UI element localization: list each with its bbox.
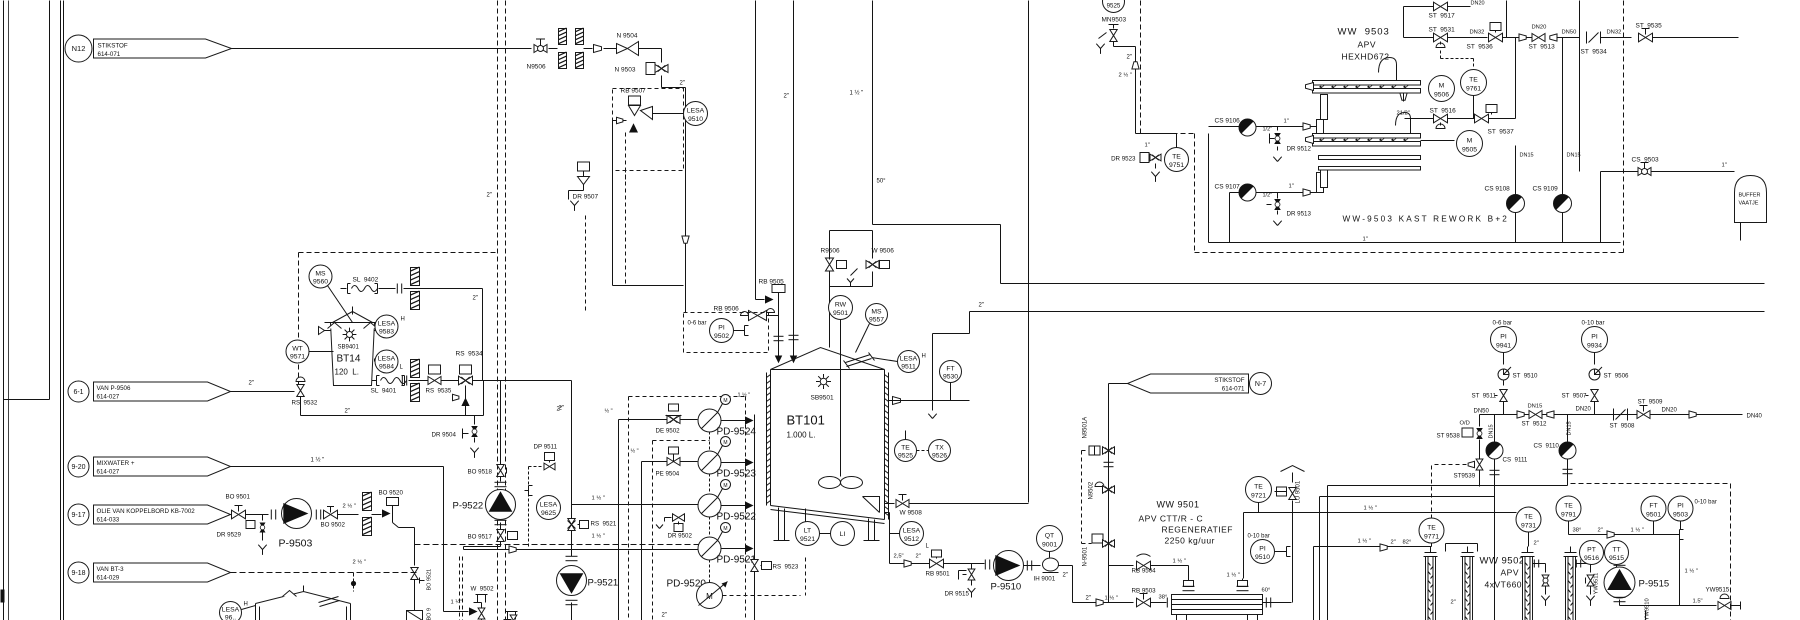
- line y512 hot water: [1244, 512, 1517, 514]
- svg-text:PI: PI: [1500, 333, 1507, 340]
- svg-text:ST 9507: ST 9507: [1562, 393, 1588, 400]
- flag 9-20 MIXWATER: [68, 456, 89, 477]
- svg-text:PD-9523: PD-9523: [717, 469, 757, 480]
- svg-text:0-10 bar: 0-10 bar: [1582, 320, 1605, 327]
- svg-text:LESA: LESA: [378, 355, 396, 362]
- heat exchanger WW9501 plate pack: [1172, 595, 1263, 615]
- dashed y545 long: [415, 544, 699, 546]
- svg-text:9525: 9525: [898, 452, 913, 459]
- wire loop RB9507: [662, 87, 686, 89]
- svg-text:TE: TE: [1172, 153, 1181, 160]
- svg-text:ST 9508: ST 9508: [1610, 423, 1636, 430]
- title block box top-left: [49, 1, 51, 400]
- svg-text:P-9521: P-9521: [588, 578, 619, 589]
- svg-text:W 9502: W 9502: [471, 586, 495, 593]
- svg-text:BO 9521: BO 9521: [427, 569, 433, 591]
- discharge line y549: [464, 546, 501, 548]
- line y486: [1328, 485, 1568, 487]
- svg-text:ST9539: ST9539: [1454, 473, 1476, 480]
- HX tube 4: [1566, 557, 1576, 620]
- svg-text:DR 9507: DR 9507: [573, 194, 599, 201]
- svg-text:1 ½ ": 1 ½ ": [1364, 505, 1377, 512]
- svg-text:9560: 9560: [313, 279, 328, 286]
- pump P-9503: [270, 510, 272, 520]
- svg-text:MN9503: MN9503: [1102, 17, 1127, 24]
- svg-text:9511: 9511: [901, 363, 916, 370]
- svg-text:9-20: 9-20: [71, 464, 85, 471]
- manifold line y504: [572, 504, 699, 506]
- valve RS 9532: [296, 377, 305, 382]
- dosing pump PD-9523: [698, 451, 721, 474]
- svg-text:ST 9510: ST 9510: [1513, 373, 1539, 380]
- svg-text:9512: 9512: [904, 536, 919, 543]
- instrument MS 9557: [866, 304, 888, 326]
- HX right outlet: [1263, 602, 1287, 604]
- vertical x1028: [1028, 1, 1030, 503]
- svg-text:614-027: 614-027: [97, 394, 120, 401]
- wall hatch P9503: [363, 492, 372, 510]
- svg-text:2": 2": [662, 613, 667, 619]
- svg-text:ST 9511: ST 9511: [1472, 393, 1497, 400]
- drain DR 9529: [262, 515, 264, 521]
- svg-text:N9506: N9506: [527, 64, 547, 71]
- svg-text:DN20: DN20: [1576, 407, 1592, 413]
- dashed link TE9771: [1431, 466, 1433, 518]
- svg-text:O/D: O/D: [1460, 421, 1470, 427]
- svg-text:SL 9402: SL 9402: [353, 277, 379, 284]
- svg-text:N9501A: N9501A: [1083, 417, 1089, 439]
- svg-text:LESA: LESA: [903, 527, 921, 534]
- svg-text:LESA: LESA: [378, 320, 396, 327]
- svg-text:CS 9107: CS 9107: [1215, 184, 1241, 191]
- heat exchanger WW9503 lower: [1313, 134, 1421, 139]
- svg-text:BO 9: BO 9: [427, 608, 433, 620]
- instrument LESA bottom tank: [220, 602, 242, 620]
- HX connection stubs: [1321, 95, 1328, 120]
- line y283 long horizontal: [1000, 225, 1002, 284]
- line y224 corner: [873, 224, 1001, 226]
- svg-text:REGENERATIEF: REGENERATIEF: [1162, 525, 1234, 535]
- dashed box PD cluster: [629, 396, 746, 398]
- flag 9-18 VAN BT-3: [68, 562, 89, 583]
- svg-text:2": 2": [473, 296, 478, 302]
- svg-text:RB 9504: RB 9504: [1132, 568, 1157, 575]
- pump P-9521: [566, 555, 578, 557]
- pump P-9522: [486, 490, 516, 520]
- svg-text:RW: RW: [835, 301, 847, 308]
- svg-text:2": 2": [1534, 541, 1539, 547]
- wall hatch SL9401: [411, 359, 420, 377]
- svg-text:21/2": 21/2": [1397, 111, 1410, 117]
- svg-text:1 ½ ": 1 ½ ": [1227, 572, 1240, 579]
- svg-text:9731: 9731: [1521, 522, 1536, 529]
- lines to WW9502 from below: [1313, 547, 1315, 620]
- svg-text:MS: MS: [315, 270, 326, 277]
- tank nozzle line y400: [893, 397, 901, 405]
- tube bridge 1-2: [1446, 543, 1478, 545]
- line y495: [1320, 496, 1495, 498]
- svg-text:RS 9523: RS 9523: [773, 564, 799, 571]
- svg-text:DR 9515: DR 9515: [945, 591, 970, 598]
- frame fold mark: [1, 590, 5, 603]
- flag 6-1 VAN P-9506: [68, 381, 89, 402]
- svg-text:CS 9108: CS 9108: [1485, 186, 1511, 193]
- instrument LI: [831, 522, 855, 546]
- valve DR 9507: [583, 169, 585, 177]
- svg-text:9-17: 9-17: [71, 512, 85, 519]
- dashed to TE9771: [1432, 464, 1467, 466]
- svg-text:LESA: LESA: [900, 355, 918, 362]
- HX upper drain funnel: [1400, 93, 1407, 100]
- svg-text:DN50: DN50: [1562, 30, 1577, 36]
- svg-text:P-9515: P-9515: [1639, 579, 1670, 590]
- svg-text:ST 9512: ST 9512: [1522, 421, 1548, 428]
- svg-text:9721: 9721: [1251, 493, 1266, 500]
- svg-text:M: M: [723, 483, 727, 489]
- solid box KAST: [1208, 134, 1210, 243]
- flex SL 9401: [372, 380, 377, 382]
- svg-text:STIKSTOF: STIKSTOF: [98, 43, 128, 50]
- svg-text:LESA: LESA: [540, 501, 558, 508]
- valve ST9539: [1476, 459, 1483, 465]
- svg-text:BO 9520: BO 9520: [379, 490, 404, 497]
- svg-text:P-9510: P-9510: [991, 582, 1022, 593]
- svg-text:N12: N12: [72, 44, 86, 53]
- inner dashed box PE row: [653, 440, 710, 442]
- svg-text:9501: 9501: [833, 310, 848, 317]
- pump P-9515: [1614, 564, 1626, 566]
- extra valve bottom: [506, 611, 518, 613]
- dashed box WW9503 left part: [1140, 1, 1142, 134]
- instrument TE 9721: [1246, 477, 1272, 503]
- flange break: [1104, 461, 1114, 463]
- instrument PI 9502: [710, 319, 734, 343]
- frame column lines: [60, 1, 62, 620]
- svg-text:614-033: 614-033: [97, 517, 120, 524]
- svg-text:96..: 96..: [225, 614, 236, 620]
- svg-text:9502: 9502: [714, 333, 729, 340]
- svg-text:2": 2": [1063, 573, 1068, 579]
- valve ST 9537: [1486, 105, 1497, 113]
- svg-text:1": 1": [1284, 119, 1289, 125]
- svg-text:TE: TE: [901, 444, 910, 451]
- svg-text:DR 9523: DR 9523: [1111, 156, 1136, 163]
- line 9-18 dashed: [231, 572, 419, 574]
- tank drain corner box: [863, 497, 880, 513]
- svg-text:9516: 9516: [1584, 555, 1599, 562]
- instrument LESA 9511: [872, 358, 898, 362]
- svg-text:½ ": ½ ": [605, 408, 613, 415]
- svg-text:M: M: [723, 440, 727, 446]
- dashed box PI 9502: [684, 313, 769, 353]
- svg-text:9526: 9526: [932, 452, 947, 459]
- svg-text:BT14: BT14: [337, 354, 361, 365]
- svg-text:614-029: 614-029: [97, 575, 120, 582]
- instrument LT 9521: [796, 522, 820, 546]
- svg-text:2 ½ ": 2 ½ ": [353, 559, 366, 566]
- svg-text:PD-9521: PD-9521: [717, 555, 757, 566]
- svg-text:RS 9534: RS 9534: [456, 351, 483, 358]
- reducer cone: [594, 45, 602, 53]
- svg-text:ST 9531: ST 9531: [1429, 27, 1456, 34]
- line y414 manifold: [1480, 414, 1743, 416]
- svg-text:LI: LI: [840, 531, 846, 538]
- svg-text:VAATJE: VAATJE: [1739, 201, 1759, 207]
- svg-text:TE: TE: [1564, 502, 1573, 509]
- svg-text:1 ½ ": 1 ½ ": [1685, 568, 1698, 575]
- svg-text:DN40: DN40: [1747, 414, 1763, 420]
- svg-text:RB 9507: RB 9507: [621, 88, 647, 95]
- svg-text:1 ½ ": 1 ½ ": [1358, 538, 1371, 545]
- svg-text:ST 9537: ST 9537: [1488, 129, 1515, 136]
- valve CS 9503: [1638, 167, 1645, 175]
- svg-text:1 ¼": 1 ¼": [451, 600, 463, 606]
- junction dot: [353, 573, 355, 592]
- svg-text:1 ½ ": 1 ½ ": [1173, 558, 1186, 565]
- svg-text:9510: 9510: [1255, 554, 1270, 561]
- svg-text:9510: 9510: [688, 116, 703, 123]
- line CS9503 to buffer: [1601, 171, 1735, 173]
- svg-text:1 ½ ": 1 ½ ": [850, 90, 864, 97]
- instrument QT 9001: [1037, 526, 1063, 552]
- svg-text:DR 9529: DR 9529: [217, 532, 242, 539]
- motor M 9506: [1429, 76, 1455, 102]
- HX lower plates: [1319, 156, 1421, 160]
- svg-text:PI: PI: [1259, 545, 1266, 552]
- valve RS 9535: [429, 365, 441, 374]
- svg-text:CS 9111: CS 9111: [1503, 457, 1528, 464]
- dosing pump PD-9522: [698, 494, 721, 517]
- instrument TE 9761: [1461, 70, 1487, 96]
- svg-text:1/2": 1/2": [1263, 127, 1273, 133]
- svg-text:M: M: [723, 398, 727, 404]
- svg-text:ST 9509: ST 9509: [1638, 399, 1664, 406]
- svg-text:LESA: LESA: [222, 606, 240, 613]
- svg-text:PI: PI: [718, 324, 725, 331]
- wire into TE 9751: [1136, 133, 1177, 135]
- line x1135 down with cone: [1135, 47, 1137, 134]
- svg-text:PI: PI: [1677, 502, 1684, 509]
- svg-text:BT101: BT101: [787, 413, 825, 428]
- tank BT101 shell: [771, 348, 885, 370]
- line x1679 down: [1679, 535, 1681, 606]
- dashed box BT14 cluster: [299, 252, 498, 254]
- line down right of BT14: [482, 289, 484, 381]
- svg-text:WW 9503: WW 9503: [1338, 27, 1390, 38]
- pump P-9510: [984, 560, 986, 570]
- svg-text:1/2": 1/2": [1263, 193, 1273, 199]
- line to RB9503: [1072, 566, 1074, 603]
- dashed LT link: [723, 595, 801, 597]
- svg-text:APV: APV: [1358, 40, 1377, 50]
- motor M 9505: [1421, 140, 1455, 142]
- ST 9534 break: [1586, 32, 1588, 44]
- svg-text:PE 9504: PE 9504: [656, 471, 680, 478]
- svg-text:ST 9513: ST 9513: [1529, 44, 1556, 51]
- instrument TE 9791: [1556, 496, 1581, 521]
- svg-text:9-18: 9-18: [71, 570, 85, 577]
- svg-text:2,5": 2,5": [894, 554, 904, 560]
- svg-text:DR 9512: DR 9512: [1287, 146, 1312, 153]
- svg-text:QT: QT: [1045, 532, 1054, 539]
- vertical x1579: [1579, 1, 1581, 172]
- svg-text:2": 2": [1391, 540, 1396, 546]
- HX tube 3: [1523, 557, 1533, 620]
- svg-text:9751: 9751: [1169, 162, 1184, 169]
- tank BT101 bottom: [771, 506, 885, 520]
- svg-text:OLIE VAN KOPPELBORD KB-7002: OLIE VAN KOPPELBORD KB-7002: [97, 508, 196, 515]
- svg-text:P-9503: P-9503: [279, 538, 313, 550]
- svg-text:TE: TE: [1427, 524, 1436, 531]
- svg-text:DN32: DN32: [1470, 30, 1485, 36]
- sparger SB9501: [820, 378, 827, 385]
- svg-text:M: M: [1467, 137, 1473, 144]
- svg-text:2250 kg/uur: 2250 kg/uur: [1165, 536, 1215, 546]
- dashed path down: [393, 523, 399, 528]
- svg-text:SB9401: SB9401: [338, 345, 360, 351]
- svg-text:9761: 9761: [1466, 86, 1481, 93]
- CS 9108: [1507, 195, 1525, 213]
- svg-text:WW-9503 KAST REWORK B+2: WW-9503 KAST REWORK B+2: [1343, 215, 1510, 224]
- flow element IH 9001: [1043, 558, 1059, 571]
- process line 755 vertical: [755, 1, 757, 300]
- svg-text:DN15: DN15: [1567, 153, 1581, 159]
- svg-text:RB 9501: RB 9501: [926, 571, 951, 578]
- svg-text:APV: APV: [1501, 568, 1520, 578]
- instrument WT 9571: [286, 340, 309, 363]
- pump P-9522 flanges: [495, 481, 507, 483]
- svg-text:9502: 9502: [1502, 556, 1525, 567]
- svg-text:9506: 9506: [1434, 92, 1449, 99]
- svg-text:9583: 9583: [379, 329, 394, 336]
- svg-text:VAN P-9506: VAN P-9506: [97, 385, 131, 392]
- valve ST 9535: [1624, 37, 1632, 39]
- svg-text:9771: 9771: [1424, 533, 1439, 540]
- svg-text:2": 2": [1451, 600, 1456, 606]
- svg-text:4xVT660: 4xVT660: [1485, 580, 1523, 590]
- agitator drive sloped: [846, 355, 871, 363]
- filter box: [407, 611, 423, 620]
- valve ST 9538 branch: [1479, 415, 1481, 427]
- svg-text:2 ½ ": 2 ½ ": [343, 503, 356, 510]
- svg-text:2": 2": [1598, 528, 1603, 534]
- instruments FT 9501 PI 9503: [1641, 496, 1666, 521]
- svg-text:9625: 9625: [541, 510, 556, 517]
- svg-text:W 9508: W 9508: [900, 510, 923, 517]
- svg-text:DR 9504: DR 9504: [432, 432, 457, 439]
- svg-text:DR 9513: DR 9513: [1287, 211, 1312, 218]
- svg-text:6-1: 6-1: [73, 389, 83, 396]
- svg-text:PD-9524: PD-9524: [717, 427, 757, 438]
- instrument TE 9731: [1516, 507, 1541, 532]
- check valve up x465: [465, 386, 467, 416]
- dosing pump PD-9521: [698, 537, 721, 560]
- instrument trunk dashed lines: [497, 1, 499, 620]
- ST 9510 symbol: [1498, 369, 1509, 380]
- svg-text:0-6 bar: 0-6 bar: [1493, 320, 1513, 327]
- svg-text:DN20: DN20: [1662, 408, 1678, 414]
- dosing pump PD-9524: [698, 409, 721, 432]
- instrument LESA 9583: [375, 327, 378, 329]
- svg-text:1 ½ ": 1 ½ ": [592, 495, 605, 502]
- svg-text:1": 1": [1722, 163, 1727, 169]
- svg-text:ST 9534: ST 9534: [1581, 49, 1608, 56]
- svg-text:TT: TT: [1612, 546, 1620, 553]
- svg-text:DN20: DN20: [1471, 1, 1485, 7]
- svg-text:BUFFER: BUFFER: [1739, 193, 1761, 199]
- svg-text:2": 2": [784, 94, 789, 100]
- svg-text:614-071: 614-071: [1222, 386, 1245, 393]
- svg-text:1": 1": [1145, 143, 1150, 149]
- arrows into tank BT101: [775, 356, 783, 364]
- svg-text:MS: MS: [871, 308, 882, 315]
- line to W9502: [444, 611, 469, 613]
- svg-text:0-10 bar: 0-10 bar: [1248, 534, 1270, 540]
- svg-text:9501: 9501: [1646, 511, 1661, 518]
- svg-text:9571: 9571: [290, 354, 305, 361]
- svg-text:ST 9536: ST 9536: [1467, 44, 1494, 51]
- svg-text:N-9501: N-9501: [1083, 546, 1089, 566]
- instrument RW 9501: [829, 296, 853, 320]
- svg-text:RS 9532: RS 9532: [292, 400, 318, 407]
- svg-text:38°: 38°: [1159, 595, 1168, 601]
- ST 9508 spec break: [1613, 409, 1615, 421]
- svg-text:2": 2": [345, 409, 350, 415]
- svg-text:2": 2": [559, 406, 564, 412]
- svg-text:VAN BT-3: VAN BT-3: [97, 566, 125, 573]
- sparger SB9401: [346, 331, 352, 337]
- svg-text:SL 9401: SL 9401: [371, 388, 397, 395]
- svg-text:9941: 9941: [1496, 343, 1511, 350]
- svg-text:1 ½ ": 1 ½ ": [311, 457, 325, 464]
- dashed actuator link: [1081, 451, 1083, 544]
- svg-text:H: H: [401, 317, 405, 323]
- instrument LESA 9584: [375, 350, 398, 373]
- svg-text:ST 9516: ST 9516: [1430, 108, 1457, 115]
- instrument MS 9560: [309, 265, 332, 288]
- svg-text:ST 9538: ST 9538: [1437, 433, 1461, 440]
- svg-text:CS 9110: CS 9110: [1534, 443, 1560, 450]
- wire down to N9503: [661, 49, 663, 63]
- line from flag N-7: [1109, 383, 1128, 385]
- svg-text:2": 2": [487, 193, 492, 199]
- svg-text:M: M: [723, 526, 727, 532]
- valve BO 9521: [411, 568, 418, 574]
- svg-text:DR 9502: DR 9502: [668, 533, 693, 540]
- valve ST 9513 row: [1516, 37, 1532, 39]
- svg-text:WW 9501: WW 9501: [1157, 500, 1200, 510]
- dashed trunk lines PD: [618, 420, 620, 620]
- svg-text:DE 9502: DE 9502: [656, 428, 681, 435]
- svg-text:M: M: [1439, 82, 1445, 89]
- HX tube 1: [1426, 557, 1436, 620]
- svg-text:BO 9502: BO 9502: [321, 522, 346, 529]
- svg-text:DP 9511: DP 9511: [534, 444, 558, 451]
- svg-text:2": 2": [249, 381, 254, 387]
- dashed box bottom right: [1571, 483, 1731, 485]
- line HX outlet up: [1242, 579, 1244, 581]
- tank BT101 agitator: [840, 320, 842, 477]
- drain DR 9504: [474, 416, 476, 425]
- svg-text:1.000 L.: 1.000 L.: [787, 431, 816, 440]
- svg-text:9515: 9515: [1609, 555, 1624, 562]
- svg-text:9791: 9791: [1561, 511, 1576, 518]
- instrument FT 9530: [940, 361, 962, 383]
- buffer vessel: [1735, 176, 1767, 223]
- svg-text:N9502: N9502: [1089, 481, 1095, 499]
- svg-text:9001: 9001: [1042, 542, 1057, 549]
- svg-text:BO 9517: BO 9517: [468, 534, 493, 541]
